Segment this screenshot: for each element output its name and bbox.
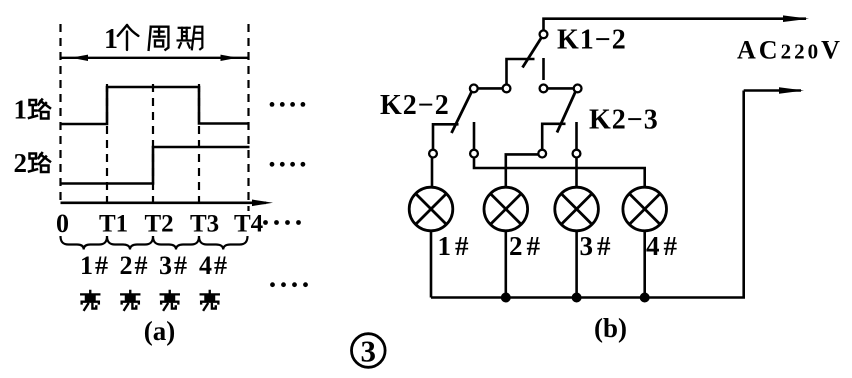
svg-text:T1: T1 [99, 211, 128, 238]
wire AC line2 [744, 89, 801, 92]
wire lamp3 to bus [575, 231, 578, 298]
contact node C [540, 85, 548, 93]
dots after interval labels [270, 282, 308, 287]
wire: K2-3 right throw [575, 122, 578, 150]
time axis [61, 200, 274, 207]
brace interval 0-T1 [61, 236, 108, 250]
wire node C to node D [544, 87, 578, 90]
figure number circled 3 [352, 334, 386, 369]
wire: K2-2 left throw elbow to contact E [433, 124, 459, 150]
svg-text:T2: T2 [145, 211, 174, 238]
svg-text:3#: 3# [159, 251, 189, 280]
dimension line (1 period) [61, 55, 249, 61]
svg-text:4#: 4# [646, 231, 681, 261]
svg-text:K2−3: K2−3 [589, 105, 659, 136]
svg-text:(b): (b) [594, 313, 627, 343]
switch K2-2 blade [452, 92, 472, 133]
contact node B [503, 85, 511, 93]
lamp 4# [623, 187, 667, 231]
wire contact G to lamp2 [506, 154, 539, 187]
dashed boundary line T4 [247, 24, 249, 211]
switch K2-2 pole contact A [470, 85, 478, 93]
junction lamp2/bus [501, 293, 511, 303]
svg-text:3#: 3# [580, 231, 615, 261]
contact H [573, 150, 581, 158]
dashed boundary line t=0 [59, 24, 61, 206]
svg-text:(a): (a) [144, 316, 175, 346]
svg-text:1#: 1# [80, 251, 110, 280]
junction lamp4/bus [640, 293, 650, 303]
contact F [470, 150, 478, 158]
svg-text:K1−2: K1−2 [557, 25, 627, 56]
switch K2-3 pole contact D [574, 85, 582, 93]
lamp 3# [555, 187, 599, 231]
svg-text:1: 1 [104, 24, 118, 55]
svg-text:1: 1 [14, 95, 28, 125]
wire contact E to lamp1 [431, 157, 434, 187]
svg-text:2#: 2# [120, 251, 150, 280]
brace interval T2-T3 [153, 236, 199, 250]
wire lamp2 to bus [504, 231, 507, 298]
dashed line T3 [198, 84, 200, 206]
arrow AC line1 [783, 15, 809, 22]
svg-text:3: 3 [361, 334, 377, 369]
wire: K2-3 left throw elbow to contact G [542, 124, 565, 150]
waveform channel 1 [61, 87, 250, 124]
wire: K1-2 left throw elbow to node B [507, 59, 535, 88]
switch K1-2 pole contact [540, 30, 548, 38]
label 2路 (channel 2) [14, 148, 51, 178]
junction lamp3/bus [572, 293, 582, 303]
brace interval T1-T2 [107, 236, 153, 250]
dots after T4 [263, 220, 301, 225]
svg-text:T3: T3 [190, 211, 219, 238]
svg-text:AC220V: AC220V [737, 36, 843, 65]
label 亮 row (lit) [81, 291, 219, 310]
dots after waveform 2 [270, 162, 306, 167]
wire contact H to lamp3 [575, 157, 578, 187]
svg-text:K2−2: K2−2 [380, 90, 450, 121]
svg-text:2: 2 [14, 148, 28, 178]
dots after waveform 1 [270, 102, 306, 107]
wire AC line1 top [544, 19, 807, 35]
bottom bus wire [431, 91, 744, 298]
brace interval T3-T4 [199, 236, 248, 250]
wire lamp1 to bus [430, 231, 433, 298]
switch K2-3 blade [557, 92, 575, 133]
arrow AC line2 [779, 87, 804, 94]
label 1路 (channel 1) [14, 95, 51, 125]
svg-text:4#: 4# [199, 251, 229, 280]
dashed line T2 [152, 84, 154, 206]
wire contact F to lamp4 [474, 157, 645, 187]
contact G [538, 150, 546, 158]
switch K1-2 blade [523, 38, 542, 68]
contact E [429, 150, 437, 158]
dashed line T1 [106, 84, 108, 206]
svg-text:T4: T4 [234, 211, 264, 238]
label 1个周期 [104, 24, 202, 55]
svg-text:1#: 1# [438, 231, 473, 261]
lamp 1# [409, 187, 453, 231]
lamp 2# [484, 187, 528, 231]
wire node B to node A [474, 87, 507, 90]
waveform channel 2 [61, 147, 250, 184]
wire: K2-2 right throw [473, 122, 476, 150]
wire: K1-2 right throw [542, 58, 545, 80]
svg-text:2#: 2# [509, 231, 544, 261]
svg-text:0: 0 [56, 209, 69, 238]
wire lamp4 to bus [643, 231, 646, 298]
